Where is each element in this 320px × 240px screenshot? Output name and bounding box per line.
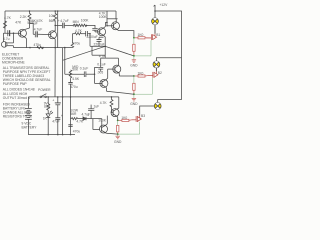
svg-text:2200uF: 2200uF (87, 35, 98, 39)
svg-text:50K: 50K (72, 68, 79, 72)
wire gate stub ch1 (133, 38, 135, 45)
thyristor SCR1 (146, 34, 157, 40)
wire LED column (47, 97, 49, 135)
svg-text:10K: 10K (73, 23, 80, 27)
node mid rail dots (47, 96, 49, 98)
wire run y33.7 stage2 input top (72, 34, 92, 47)
svg-text:100K: 100K (81, 18, 90, 22)
LED power indicator (46, 111, 53, 118)
resistor R1 4.7K (4, 21, 7, 28)
label Rg3 (121, 116, 127, 120)
svg-text:B2: B2 (158, 71, 162, 75)
wire stage2 collector run (101, 58, 119, 66)
label 56K (49, 19, 56, 23)
svg-text:470u: 470u (73, 41, 81, 45)
svg-text:+: + (87, 114, 89, 118)
label LED 1K (43, 117, 48, 121)
switch SW1 (40, 94, 46, 98)
svg-text:MICROPHONE: MICROPHONE (2, 60, 26, 64)
transistor Q2 (49, 31, 57, 48)
resistor R2 2.2K (28, 14, 31, 21)
wire +12V bus (155, 11, 182, 100)
label 100K (81, 18, 90, 22)
capacitor col70 470u (68, 125, 72, 127)
svg-text:.005: .005 (97, 71, 104, 75)
node rail junction Q2 collector (54, 10, 56, 12)
wire green bus ch3 (118, 133, 140, 135)
svg-text:uF: uF (34, 22, 38, 26)
label 5.6K (27, 21, 35, 25)
capacitor stage3 input 1uF (88, 105, 94, 119)
label GND2 (130, 102, 138, 106)
svg-text:4.7K: 4.7K (100, 101, 108, 105)
capacitor col70 bypass (68, 78, 72, 84)
lamp L2 (153, 61, 160, 68)
label 4.7K y31 (75, 29, 83, 33)
svg-text:475u: 475u (34, 43, 42, 47)
label +12V (160, 3, 169, 7)
label electret note (2, 52, 26, 64)
label battery aux (44, 101, 51, 108)
wire mix links (92, 46, 105, 58)
wire column x70 lower (70, 84, 72, 135)
wire column x62.6 (62, 48, 64, 135)
capacitor 47uF (55, 103, 61, 105)
capacitor stage2 run 0.1uF (84, 71, 86, 77)
wire column x55 mid (54, 48, 56, 97)
wire L3 to SCR3 (140, 106, 155, 116)
wire diagonal ch2 (107, 91, 134, 94)
svg-text:OUTPUT 30mcd 4: OUTPUT 30mcd 4 (3, 96, 30, 100)
label stage3 100K (98, 118, 107, 122)
wire Q1 base (3, 32, 20, 34)
label SCR1 (156, 33, 160, 37)
svg-text:0.1uF: 0.1uF (97, 62, 105, 66)
wire top supply rail (5, 10, 116, 12)
ground GND1 (132, 56, 136, 63)
label pot MIN 10K (73, 20, 80, 27)
svg-text:BATTERY: BATTERY (22, 126, 38, 130)
svg-text:4.7u: 4.7u (3, 37, 10, 41)
label stage1 4.7K (99, 12, 107, 16)
label mic run resistor (34, 43, 42, 47)
label stage3 1uF (94, 105, 100, 109)
wire column x59 (57, 11, 59, 48)
wire stage3 base column (111, 97, 113, 113)
thyristor SCR2 (147, 71, 158, 78)
svg-text:+: + (58, 19, 60, 23)
node coupling junction (86, 25, 88, 27)
wire Q1c to C2 (30, 24, 34, 35)
wire L2 to SCR2 (155, 68, 157, 72)
wire stage3 collector corner (118, 97, 120, 108)
resistor Rg1 (135, 37, 151, 39)
svg-text:GND: GND (130, 102, 138, 106)
svg-text:1K0: 1K0 (138, 33, 144, 37)
svg-text:56K: 56K (49, 19, 56, 23)
label col70 470u (73, 129, 81, 133)
wire +12V tick (154, 5, 155, 19)
svg-text:PURPOSE PNP: PURPOSE PNP (3, 82, 28, 86)
label battery (22, 122, 38, 130)
electret microphone MIC1 (1, 33, 13, 47)
wire SCR2 cathode (134, 78, 153, 95)
node mic wire junctions (29, 47, 31, 49)
node stage3 rail (111, 96, 113, 98)
label Rg2 (138, 71, 144, 75)
resistor Rk2 (133, 83, 135, 94)
svg-text:POWER: POWER (38, 88, 51, 92)
capacitor 47uF lower (55, 105, 60, 135)
wire ch2 base box (95, 67, 102, 83)
node gate ch2 (133, 75, 135, 77)
wire QA1 emitter to gate ch1 (118, 31, 134, 38)
svg-text:+: + (52, 99, 54, 103)
wire lamp3 feed (158, 100, 182, 104)
label half watt (70, 109, 79, 116)
label stage2 0.1uF (97, 62, 105, 66)
wire diagonal wiper to mix (63, 46, 106, 60)
text notes block (3, 66, 51, 119)
label R1 4.7K (4, 16, 12, 20)
node gate ch1 (133, 37, 135, 39)
resistor R3 10K (54, 14, 57, 21)
node bottom rail dots (47, 134, 49, 136)
label 470R (73, 41, 81, 45)
lamp L3 (154, 103, 161, 110)
transistor QA2 (109, 65, 134, 76)
resistor LED 1K (47, 104, 50, 111)
svg-text:B3: B3 (141, 114, 145, 118)
wire battery column (27, 97, 29, 135)
label SCR3 (141, 114, 145, 118)
transistor QB3 (100, 116, 108, 134)
resistor Rg2 (135, 75, 148, 77)
svg-text:1K0: 1K0 (138, 71, 144, 75)
capacitor C5 2200uF (92, 28, 98, 32)
node ground ch2 (133, 93, 135, 95)
resistor Rk1 (133, 44, 135, 56)
wire diagonal ch1 (105, 46, 134, 56)
svg-text:RESISTORS TO 1K: RESISTORS TO 1K (3, 115, 33, 119)
resistor 100K horizontal (81, 24, 87, 26)
wire column x64.8 (64, 48, 66, 75)
ground GND3 (116, 134, 120, 139)
svg-text:GND: GND (130, 64, 138, 68)
svg-text:0.1uF: 0.1uF (80, 66, 88, 70)
svg-text:47K: 47K (15, 20, 22, 24)
wire left column (4, 11, 6, 33)
transistor QA3 (111, 108, 119, 120)
label POWER (38, 88, 51, 92)
node gate ch3 (117, 120, 119, 122)
label Rg1 (138, 33, 144, 37)
wire L1 to SCR1 (154, 25, 156, 34)
battery B1 (25, 109, 32, 120)
wire lamp2 feed (156, 58, 181, 62)
svg-text:4.7uF: 4.7uF (60, 19, 68, 23)
label GND3 (114, 140, 122, 144)
transistor QB2 (100, 69, 109, 91)
svg-text:470u: 470u (73, 129, 81, 133)
svg-text:GND: GND (114, 140, 122, 144)
resistor Rg3 (119, 119, 132, 121)
node ground ch3 (117, 133, 119, 135)
label bottom 4.7uF (82, 112, 90, 117)
capacitor C6 2200uF emitter (97, 37, 104, 46)
label stage2 4.7K (99, 55, 107, 59)
capacitor stage2 input (98, 63, 103, 72)
wire Q1 collector column (29, 11, 31, 28)
label col70 470u bypass (70, 85, 78, 89)
label C1 4.7u (3, 37, 10, 41)
svg-text:4.7uF: 4.7uF (34, 28, 42, 32)
node coupling tap (54, 25, 56, 27)
wire diagonal ch3 (106, 132, 118, 135)
wire SCR3 cathode (139, 122, 141, 134)
stage1 bias box (107, 11, 118, 26)
label 4.5K (72, 77, 80, 81)
wire green bus ch1 (134, 55, 151, 57)
capacitor y33.7 (86, 31, 88, 36)
wire to C5 (86, 25, 95, 28)
node mix junction (104, 46, 106, 48)
label 47K (15, 20, 22, 24)
svg-text:2.2K: 2.2K (20, 15, 28, 19)
svg-text:56R: 56R (70, 112, 77, 116)
label stage2 .005 (97, 71, 104, 75)
label MID 50K (72, 65, 79, 72)
svg-text:1uF: 1uF (94, 105, 100, 109)
node run junction (89, 33, 91, 35)
wire Q2 collector column (54, 11, 56, 31)
svg-text:10K: 10K (49, 14, 56, 18)
label 56K/47K cluster (30, 19, 43, 26)
label C5 2200uF (87, 35, 98, 39)
svg-text:1K0: 1K0 (121, 116, 127, 120)
svg-text:100K: 100K (98, 118, 107, 122)
node stage1 bias dots (106, 22, 108, 24)
label stage1 100K (99, 15, 108, 19)
resistor stage3 base 4.7K (110, 100, 113, 107)
label 47uF (52, 99, 63, 124)
svg-text:4.7K: 4.7K (4, 16, 12, 20)
label stage3 4.7K (100, 101, 108, 105)
label GND1 (130, 64, 138, 68)
potentiometer MIN 10K (74, 24, 82, 26)
resistor 4.7K y33.7 (75, 33, 81, 35)
svg-text:4.5K: 4.5K (72, 77, 80, 81)
label R3 10K (49, 14, 56, 18)
capacitor C3 4.7uF (62, 23, 64, 29)
capacitor C1 4.7u (8, 30, 10, 36)
wire gate stub ch3 (117, 120, 119, 125)
wire gate stub ch2 (133, 76, 135, 83)
label C3 4.7uF (58, 19, 69, 23)
lamp L1 (152, 18, 159, 25)
transistor QB1 (98, 22, 107, 46)
svg-text:470u: 470u (70, 85, 78, 89)
resistor 470R column (71, 34, 74, 48)
ground GND2 (132, 94, 136, 101)
node base junction (13, 32, 15, 34)
resistor Rk3 (117, 125, 119, 134)
node rail R2 (29, 10, 31, 12)
wire mid rail (28, 96, 118, 98)
label run 0.1uF (80, 66, 88, 70)
node bus tap (154, 10, 156, 12)
transistor QA1 (107, 19, 120, 31)
wire SCR1 cathode (150, 40, 152, 56)
wire coupling run y25.4 (55, 24, 73, 26)
svg-text:100K: 100K (99, 15, 108, 19)
svg-text:B1: B1 (156, 33, 160, 37)
label R2 2.2K (20, 15, 28, 19)
label C2 4.7uF (34, 28, 42, 32)
wire cap47 column (57, 97, 59, 103)
capacitor bottom 4.7uF (83, 117, 91, 120)
svg-text:4.7K: 4.7K (75, 29, 83, 33)
capacitor C2 4.7uF (33, 31, 48, 37)
resistor bottom 4.7K (71, 118, 84, 120)
thyristor SCR3 (132, 115, 141, 122)
node ground ch1 (133, 55, 135, 57)
wire stage2 feed run (65, 73, 95, 75)
potentiometer MID 50K (69, 70, 72, 78)
wire bottom rail (28, 134, 75, 136)
wire stage3 box (91, 119, 102, 130)
transistor Q1 (18, 28, 29, 48)
label C6 2200uF (94, 43, 105, 47)
svg-text:ALL DIODES 1N4148: ALL DIODES 1N4148 (3, 87, 35, 91)
svg-text:47uF: 47uF (52, 120, 60, 124)
node rail junction x59 (57, 10, 59, 12)
resistor mid mic run (37, 46, 44, 48)
svg-text:+12V: +12V (160, 3, 169, 7)
label SCR2 (158, 71, 162, 75)
label bottom 4.7K (76, 120, 84, 124)
wire mic ground run (14, 47, 73, 49)
